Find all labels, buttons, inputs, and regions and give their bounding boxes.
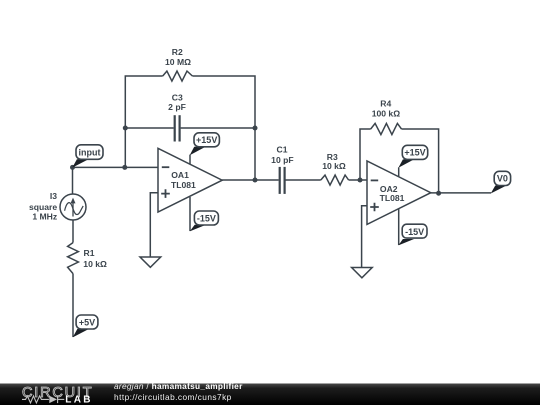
svg-text:square: square xyxy=(29,202,57,212)
svg-text:C3: C3 xyxy=(172,92,183,102)
svg-text:R4: R4 xyxy=(380,99,391,109)
svg-text:10 pF: 10 pF xyxy=(271,155,293,165)
svg-text:1 MHz: 1 MHz xyxy=(32,212,57,222)
svg-text:10 kΩ: 10 kΩ xyxy=(83,259,107,269)
svg-text:100 kΩ: 100 kΩ xyxy=(372,109,401,119)
svg-text:http://circuitlab.com/cuns7kp: http://circuitlab.com/cuns7kp xyxy=(114,392,232,402)
svg-text:10 MΩ: 10 MΩ xyxy=(165,57,191,67)
svg-text:-15V: -15V xyxy=(197,213,216,223)
svg-text:aregjan / hamamatsu_amplifier: aregjan / hamamatsu_amplifier xyxy=(114,381,243,391)
svg-text:OA1: OA1 xyxy=(171,170,189,180)
svg-text:+15V: +15V xyxy=(196,135,217,145)
svg-text:I3: I3 xyxy=(50,191,57,201)
svg-text:10 kΩ: 10 kΩ xyxy=(322,161,346,171)
svg-text:2 pF: 2 pF xyxy=(168,102,186,112)
svg-text:R2: R2 xyxy=(172,47,183,57)
svg-text:TL081: TL081 xyxy=(171,180,196,190)
svg-text:R1: R1 xyxy=(84,248,95,258)
svg-text:TL081: TL081 xyxy=(380,193,405,203)
svg-text:LAB: LAB xyxy=(65,395,92,405)
svg-text:-15V: -15V xyxy=(405,227,424,237)
svg-text:V0: V0 xyxy=(497,174,508,184)
svg-text:input: input xyxy=(79,147,101,157)
svg-text:+5V: +5V xyxy=(79,317,95,327)
svg-text:+15V: +15V xyxy=(404,148,425,158)
svg-text:C1: C1 xyxy=(277,145,288,155)
